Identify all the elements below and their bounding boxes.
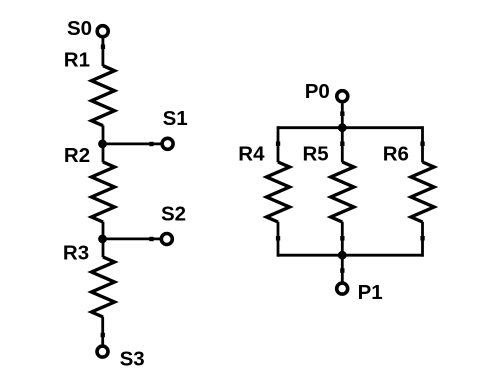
svg-text:S2: S2 (161, 202, 186, 225)
pin tick S2 pin (149, 237, 153, 241)
svg-text:R4: R4 (238, 143, 265, 166)
wire left branch lower (277, 222, 280, 257)
pin tick R4 top pin (276, 142, 280, 147)
wire middle branch upper (341, 128, 344, 163)
node junction dot at S2 tap (98, 235, 107, 244)
resistor R5 (331, 162, 354, 222)
svg-text:R6: R6 (383, 142, 409, 165)
terminal S2 (161, 234, 172, 245)
svg-text:P1: P1 (358, 281, 383, 304)
svg-text:S3: S3 (120, 348, 145, 371)
terminal S1 (162, 138, 173, 149)
svg-text:R2: R2 (64, 144, 90, 167)
resistor R4 (267, 162, 290, 222)
pin tick S1 pin (149, 142, 153, 146)
resistor R3 (92, 257, 115, 317)
svg-text:S1: S1 (163, 107, 188, 130)
wire middle branch lower (341, 222, 344, 255)
svg-text:R3: R3 (63, 242, 89, 265)
resistor R6 (411, 162, 434, 222)
wire right branch lower (421, 222, 424, 257)
wire node to terminal S2 (103, 237, 161, 240)
terminal P1 (337, 283, 348, 294)
wire top bus (278, 126, 423, 129)
terminal S0 (97, 26, 108, 37)
resistor R2 (92, 162, 115, 222)
wire left branch upper (277, 126, 280, 162)
wire right branch upper (421, 126, 424, 162)
pin tick R3 bottom pin (101, 333, 105, 338)
pin tick R6 bottom pin (420, 236, 424, 241)
wire bottom bus (278, 254, 423, 257)
pin tick R5 top pin (340, 142, 344, 147)
wire R3 to S3 (101, 317, 104, 345)
resistor R1 (92, 66, 115, 126)
terminal P0 (337, 91, 348, 102)
node junction dot top (338, 123, 347, 132)
pin tick R4 bottom pin (276, 236, 280, 241)
wire R2 to node S2 (102, 222, 105, 257)
pin tick P1 pin (340, 268, 344, 273)
wire bottom bus to P1 (341, 255, 344, 282)
terminal S3 (97, 346, 108, 357)
pin tick R6 top pin (420, 142, 424, 147)
wire node to terminal S1 (103, 142, 162, 145)
wire P0 to top bus (341, 103, 344, 129)
wire S0 to R1 (102, 38, 105, 66)
svg-text:S0: S0 (67, 17, 92, 40)
pin tick R5 bottom pin (340, 236, 344, 241)
pin tick P0 pin (340, 112, 344, 117)
pin tick R1 top pin (101, 45, 105, 50)
node junction dot bottom (338, 251, 347, 260)
svg-text:R1: R1 (64, 49, 90, 72)
node junction dot at S1 tap (98, 140, 107, 149)
svg-text:P0: P0 (305, 80, 330, 103)
wire R1 to node S1 (102, 126, 105, 163)
svg-text:R5: R5 (303, 142, 329, 165)
